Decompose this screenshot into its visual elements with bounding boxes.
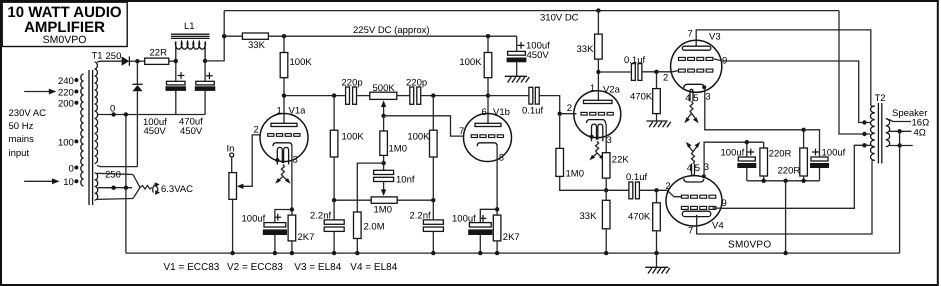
node reservoir cap / L1 input	[174, 59, 178, 63]
svg-text:L1: L1	[184, 21, 195, 32]
T1 primary tap 0	[69, 163, 79, 174]
node 310V / 33K anode feed	[596, 8, 600, 12]
resistor 470K V4 grid leak	[628, 190, 660, 253]
node V1a anode	[282, 93, 286, 97]
node V3 grid/470K	[654, 70, 658, 74]
T1 primary tap 200	[58, 99, 78, 110]
svg-text:2: 2	[567, 103, 572, 114]
T2 centre tap	[862, 132, 866, 136]
node HT rail / 33K feed	[222, 34, 226, 38]
svg-text:5: 5	[695, 163, 700, 174]
wire 0V down to ground bus	[125, 115, 127, 254]
V3 anode wire	[696, 30, 871, 106]
resistor 2.0M	[354, 212, 385, 253]
svg-text:7: 7	[688, 226, 693, 237]
svg-text:6.3VAC: 6.3VAC	[161, 184, 193, 195]
transformer T2 secondary	[886, 119, 890, 147]
pentode V3	[663, 29, 727, 103]
wiper junction node	[381, 114, 385, 118]
V2a anode wire	[597, 72, 599, 100]
V1a cathode wire	[291, 146, 293, 215]
svg-text:220R: 220R	[778, 166, 801, 177]
V1b cathode wire	[496, 146, 498, 215]
svg-text:1M0: 1M0	[566, 169, 584, 180]
svg-text:9: 9	[722, 198, 727, 209]
svg-text:2: 2	[663, 73, 668, 84]
svg-text:10nf: 10nf	[396, 175, 415, 186]
secondary bottom tap	[889, 143, 913, 147]
svg-text:2.0M: 2.0M	[364, 222, 385, 233]
svg-text:100K: 100K	[290, 57, 313, 68]
node L1 output	[203, 59, 207, 63]
svg-text:450V: 450V	[180, 126, 203, 137]
310V DC rail	[224, 11, 839, 24]
svg-text:3: 3	[705, 92, 710, 103]
triode V1b	[459, 107, 512, 164]
resistor 22K V2a cathode	[602, 153, 629, 191]
svg-text:1: 1	[277, 106, 282, 117]
svg-text:22K: 22K	[612, 155, 630, 166]
T2 UL tap V4	[862, 143, 866, 147]
resistor 33K V2a anode load	[577, 11, 603, 72]
svg-text:3: 3	[293, 155, 298, 166]
svg-text:V1b: V1b	[493, 107, 510, 118]
svg-text:100K: 100K	[459, 57, 482, 68]
diode D1	[122, 56, 130, 65]
svg-text:V4: V4	[712, 221, 724, 232]
capacitor 0.1uf coupling V1b-V2a	[522, 87, 543, 116]
svg-text:0: 0	[69, 163, 74, 174]
resistor 100K V1a anode load	[280, 36, 312, 123]
title box	[2, 2, 127, 46]
svg-text:250: 250	[105, 170, 121, 181]
capacitor 100uf 450V decoupling	[507, 36, 551, 76]
node tone bottom right	[431, 198, 435, 202]
wire D2 to bottom 250	[136, 91, 138, 166]
resistor 1M0 vertical	[380, 131, 407, 163]
wire stub to 33K	[224, 35, 242, 37]
svg-text:22R: 22R	[150, 48, 168, 59]
node V2a cathode divider	[604, 188, 608, 192]
node V1b cathode/bypass	[495, 207, 499, 211]
6.3VAC twisted pair bracket	[133, 175, 140, 199]
mains live arrow to 220 tap	[24, 89, 56, 95]
wire junction down to D2	[136, 61, 138, 83]
node V3 cathode rail / 220R2	[801, 128, 805, 132]
resistor input grid leak	[229, 173, 237, 254]
wire 0.1uf to V4 grid	[639, 190, 681, 196]
svg-text:V2 = ECC83: V2 = ECC83	[227, 262, 283, 273]
wire wiper to V1b grid	[384, 116, 464, 136]
V3 cathode wire to bias network	[704, 87, 819, 157]
wire V1b anode to coupling cap	[488, 95, 529, 97]
capacitor 100uf V1a cathode bypass	[242, 210, 292, 254]
svg-text:8: 8	[499, 153, 504, 164]
svg-text:200: 200	[58, 99, 74, 110]
node tone bottom left	[332, 198, 336, 202]
mains input labels	[9, 108, 47, 159]
svg-text:100uf: 100uf	[242, 214, 266, 225]
svg-text:50 Hz: 50 Hz	[9, 121, 34, 132]
wire 6.3V winding top end	[97, 173, 133, 174]
wire anode to upper 0.1uf	[598, 71, 631, 73]
svg-text:V3: V3	[709, 32, 721, 43]
signal wire V1a anode to 220p	[284, 95, 346, 97]
resistor 33K V2a tail	[580, 190, 611, 253]
svg-text:2: 2	[666, 181, 671, 192]
svg-text:2: 2	[254, 125, 259, 136]
svg-text:1: 1	[590, 83, 595, 94]
main ground symbol	[645, 253, 670, 273]
V4 screen wire to UL tap	[712, 145, 864, 208]
capacitor 220p left	[342, 78, 363, 105]
svg-text:SM0VPO: SM0VPO	[43, 34, 87, 46]
wire grid node to V2a	[560, 113, 577, 115]
bias network bottom rail	[747, 180, 820, 182]
node 220R1 bottom	[762, 179, 766, 183]
resistor 220R V3 cathode	[778, 130, 808, 181]
wire taps to winding	[865, 123, 871, 146]
svg-text:225V DC (approx): 225V DC (approx)	[353, 25, 430, 36]
svg-text:SM0VPO: SM0VPO	[728, 240, 771, 251]
svg-text:450V: 450V	[527, 50, 550, 61]
T1 6.3V heater winding	[95, 173, 98, 200]
capacitor 470uf 450V smoothing	[179, 61, 215, 137]
svg-text:230V AC: 230V AC	[9, 108, 47, 119]
diode D2	[132, 84, 142, 91]
triode V1a	[254, 106, 309, 166]
wire 500K to 220p right	[397, 95, 410, 97]
T2 core	[877, 103, 879, 164]
node tone network left	[332, 93, 336, 97]
capacitor 100uf 450V reservoir	[143, 61, 186, 137]
wire 0.1uf-2 entry	[606, 189, 629, 191]
resistor 100K tone right	[407, 96, 437, 201]
svg-text:220R: 220R	[769, 149, 792, 160]
V3 heater	[684, 89, 698, 123]
svg-text:5: 5	[693, 93, 698, 104]
speaker return wire	[899, 131, 901, 253]
ground V3 grid leak	[646, 121, 670, 127]
node feedback/100K right	[431, 93, 435, 97]
V3 cathode node	[702, 85, 706, 89]
wire 220p right to V1b anode node	[421, 95, 488, 97]
resistor 2K7 V1a cathode	[288, 215, 314, 253]
svg-text:input: input	[9, 148, 30, 159]
V2a cathode wire	[604, 123, 607, 153]
6.3VAC double arrow	[153, 182, 160, 195]
transformer T2 primary	[871, 93, 886, 160]
wire coupling cap to V2a grid node	[539, 96, 560, 114]
node 0/ground junction	[124, 112, 128, 116]
node V4 grid/470K	[654, 188, 658, 192]
resistor 220R V4 cathode	[760, 142, 792, 181]
resistor 33K HT dropper	[242, 33, 268, 51]
svg-text:470K: 470K	[630, 92, 653, 103]
svg-text:1M0: 1M0	[374, 205, 392, 216]
svg-text:470K: 470K	[628, 212, 651, 223]
svg-text:V3 = EL84: V3 = EL84	[294, 262, 341, 273]
capacitor 100uf V3 cathode	[810, 148, 846, 181]
node 225V / V1b load	[486, 34, 490, 38]
T1 core	[88, 70, 90, 205]
capacitor 0.1uf to V4	[626, 172, 647, 199]
V2a heater	[589, 124, 604, 160]
svg-text:310V DC: 310V DC	[540, 12, 579, 23]
T1 primary tap 10	[63, 177, 78, 188]
node 0 tap	[111, 112, 115, 116]
wire 22R to L1 node	[169, 60, 176, 62]
node 6.3V centre tap	[111, 186, 115, 190]
V1a heater	[275, 147, 290, 183]
V4 cathode node	[702, 174, 706, 178]
svg-text:V1a: V1a	[289, 106, 307, 117]
input terminal In	[227, 144, 235, 173]
potentiometer 500K treble	[370, 83, 397, 116]
V1a grid wire to input	[240, 135, 260, 186]
svg-text:4Ω: 4Ω	[914, 127, 926, 138]
svg-text:33K: 33K	[248, 40, 266, 51]
node bias cap1 top	[745, 140, 749, 144]
node 220R2 bottom	[801, 179, 805, 183]
wire 6.3V winding centre tap	[98, 187, 132, 189]
svg-text:2K7: 2K7	[298, 232, 315, 243]
resistor 100K V1b anode load	[459, 36, 491, 123]
svg-text:250: 250	[106, 51, 122, 62]
wire 0 tap to filter cap bottom rail	[98, 114, 205, 116]
T1 HV secondary winding	[95, 62, 98, 164]
wire L1 output to HT riser	[205, 11, 224, 61]
svg-text:V2a: V2a	[603, 85, 621, 96]
capacitor 220p right	[406, 78, 427, 105]
wire HV secondary top to D1	[97, 60, 122, 63]
wire D1 to 22R	[129, 60, 144, 62]
svg-text:100K: 100K	[407, 132, 430, 143]
ground bus nodes	[230, 251, 234, 255]
node 1M0/10nf junction	[381, 161, 385, 165]
svg-text:7: 7	[459, 126, 464, 137]
resistor 2K7 V1b cathode	[493, 215, 519, 253]
node ground return	[783, 179, 787, 183]
resistor 1M0 V2a grid leak	[556, 114, 606, 191]
svg-text:100K: 100K	[342, 132, 365, 143]
node D1/D2 junction	[135, 59, 139, 63]
svg-text:6: 6	[482, 107, 487, 118]
capacitor 100uf V1b cathode bypass	[452, 209, 497, 253]
wire 0.1uf to V3 grid	[642, 71, 679, 72]
ground decoupling cap	[505, 76, 530, 82]
T1 primary tap 220	[58, 87, 78, 98]
node V1b anode	[486, 93, 490, 97]
T2 UL tap V3	[862, 120, 866, 124]
svg-text:1M0: 1M0	[389, 144, 407, 155]
V4 anode wire	[697, 161, 872, 235]
wire 6.3V winding bottom end	[97, 198, 133, 201]
inductor L1	[171, 21, 210, 61]
V4 cathode wire to bias network	[704, 142, 764, 176]
svg-text:10: 10	[63, 177, 74, 188]
T1 primary tap 100	[58, 137, 78, 148]
wire wiper down to 1M0	[383, 116, 385, 132]
svg-text:mains: mains	[9, 134, 35, 145]
wire 310V to T2 centre tap	[839, 11, 864, 134]
svg-text:V4 = EL84: V4 = EL84	[350, 262, 397, 273]
svg-text:3: 3	[607, 135, 612, 146]
svg-text:33K: 33K	[577, 44, 595, 55]
16 ohm tap	[889, 118, 929, 129]
wire junction to 2.0M	[357, 163, 383, 212]
svg-text:T2: T2	[875, 93, 886, 104]
wire bias ground return	[785, 181, 787, 253]
V4 heater	[686, 142, 700, 176]
svg-text:100: 100	[58, 137, 74, 148]
svg-text:240: 240	[58, 76, 74, 87]
wire 220p to 500K	[357, 95, 370, 97]
node V2a anode	[596, 70, 600, 74]
svg-text:2K7: 2K7	[503, 232, 520, 243]
resistor 100K tone left	[330, 96, 364, 201]
resistor 470K V3 grid leak	[630, 72, 660, 121]
svg-text:7: 7	[688, 29, 693, 40]
mains neutral arrow to 10 tap	[24, 178, 59, 184]
node 225V / V1a load	[282, 34, 286, 38]
resistor 22R	[145, 48, 169, 65]
capacitor 2.2nf right	[410, 200, 444, 253]
svg-text:450V: 450V	[144, 126, 167, 137]
node V2a grid	[558, 112, 562, 116]
wire HV secondary bottom to D2	[97, 166, 137, 167]
svg-text:V1 = ECC83: V1 = ECC83	[164, 262, 220, 273]
225V DC rail	[268, 25, 516, 36]
capacitor 100uf V4 cathode	[721, 142, 757, 181]
potentiometer 1M0 bass	[334, 197, 433, 216]
svg-text:0.1uf: 0.1uf	[522, 106, 543, 117]
triode V2a	[567, 83, 621, 146]
ground bus	[126, 252, 900, 254]
4 ohm tap	[890, 127, 926, 138]
V3 screen wire to UL tap	[714, 59, 864, 123]
capacitor 0.1uf to V3	[624, 55, 645, 80]
node V1a cathode/bypass	[290, 207, 294, 211]
capacitor 10nf	[374, 163, 415, 196]
T1 primary winding	[81, 74, 84, 186]
svg-text:220: 220	[58, 87, 74, 98]
svg-text:T1: T1	[92, 51, 103, 62]
node 6.3V centre/ground	[124, 186, 128, 190]
T1 primary tap 240	[58, 76, 78, 87]
svg-text:33K: 33K	[580, 211, 598, 222]
capacitor 2.2nf left	[310, 200, 344, 253]
pentode V4	[666, 162, 727, 237]
6.3VAC squiggle	[140, 186, 152, 190]
